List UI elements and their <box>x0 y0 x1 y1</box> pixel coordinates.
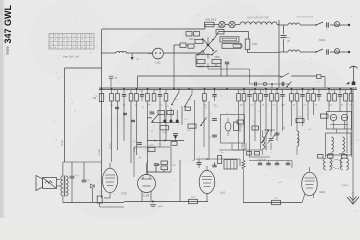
label m2b <box>278 182 282 184</box>
wire bottom bus right <box>243 202 302 204</box>
wire transformer bottom <box>63 196 124 203</box>
caps row labels <box>257 159 267 161</box>
rectifier GW2 blocks <box>186 32 200 42</box>
resistor R-r1 <box>237 120 244 132</box>
coil L-dial <box>116 51 126 53</box>
trimmer blobs <box>163 108 178 123</box>
value labels row <box>110 105 353 107</box>
terminal upper <box>345 24 350 26</box>
wire left spine <box>101 29 103 198</box>
wire upper bus drop <box>137 76 139 87</box>
wire if links <box>326 129 348 158</box>
resistor R-bb <box>189 197 198 204</box>
resistor R-m2 <box>167 111 174 115</box>
resistor R-spine <box>92 94 103 102</box>
switch S-d <box>200 118 206 127</box>
svg-text:600Ω: 600Ω <box>319 38 325 42</box>
resistor R-t3 <box>218 152 225 164</box>
svg-text:1,5 kΩ: 1,5 kΩ <box>241 142 244 149</box>
resistor R-r4 <box>321 114 329 118</box>
resistor R-d2 <box>187 124 196 132</box>
wire lamp line <box>205 25 240 30</box>
wire cl-left <box>174 45 188 53</box>
wire m-h122 <box>151 122 180 124</box>
wire caps bus <box>249 161 292 164</box>
wire output spine <box>278 20 280 87</box>
wire m-h140 <box>147 140 184 142</box>
resistor R-if1 <box>318 155 324 159</box>
resistor R-d3 <box>234 122 245 131</box>
wire d links <box>219 143 246 150</box>
tube K72 pin <box>104 193 110 198</box>
resistor R-r2 <box>252 126 259 130</box>
resistor R-br <box>272 198 281 205</box>
wire y162 <box>63 161 102 163</box>
capacitor C-sp1 <box>70 162 80 203</box>
wire speaker top <box>57 180 61 187</box>
wire upper terminal line <box>279 24 316 26</box>
switch S3 <box>171 88 192 107</box>
resistor R-ub <box>317 75 322 83</box>
wire cl-h67 <box>196 55 221 67</box>
coil upper output <box>288 23 300 25</box>
wire trimmer bus <box>264 129 275 150</box>
barretter coil <box>240 17 277 25</box>
svg-text:Saba: Saba <box>6 45 10 55</box>
capacitor C-6F <box>109 76 118 87</box>
capacitor upper output <box>327 22 345 27</box>
wire top frame <box>102 28 205 30</box>
resistor R-cl1 <box>195 40 203 44</box>
IF coil a <box>332 137 334 152</box>
capacitor C-t2 <box>133 140 142 144</box>
svg-text:347 GWL: 347 GWL <box>3 4 13 43</box>
capacitor C-avc1 <box>255 82 257 86</box>
table caption <box>63 55 79 59</box>
resistor R-m1 <box>158 111 165 115</box>
AF transformer coils <box>324 159 349 170</box>
wire v194 <box>194 100 196 160</box>
resistor R-if2 <box>328 155 334 159</box>
resistor R-wm <box>242 150 245 203</box>
resistor R-4k <box>245 39 257 50</box>
label U des rotated <box>98 148 101 155</box>
label u2 rotated <box>133 147 136 152</box>
svg-text:λ.ε2: λ.ε2 <box>220 191 225 195</box>
cap ticks verticals <box>115 107 135 121</box>
wire cl-v1 <box>247 50 249 53</box>
switch S2b <box>211 51 217 56</box>
label module <box>139 157 142 159</box>
capacitor C-m2 <box>173 134 178 141</box>
lamp LA2 <box>148 48 163 59</box>
tube voltage table <box>49 34 94 50</box>
caps row above <box>258 163 290 165</box>
resistor R-line <box>205 18 217 27</box>
label 0,1 rotated <box>298 137 301 142</box>
capacitor C-t3a <box>192 159 201 168</box>
wire m-h118 <box>147 117 152 119</box>
electrolytic C-e <box>225 118 231 136</box>
switch S4 <box>149 111 158 122</box>
capacitor C-bb <box>150 201 164 209</box>
wire cl-h54 <box>196 54 212 56</box>
wire antenna branch <box>65 68 102 162</box>
switch lower output <box>315 49 323 53</box>
wire to output block <box>277 24 279 26</box>
capacitor C-d1 <box>210 119 217 122</box>
trimmer C-tr <box>268 135 276 144</box>
label 4k rotated <box>110 143 113 148</box>
resistor R-k <box>97 196 124 207</box>
wire corner y69 <box>208 69 249 84</box>
tube C83 <box>138 163 156 193</box>
wire v292 <box>291 161 293 169</box>
switch S5 <box>261 130 269 143</box>
capacitor C-sp2 <box>82 162 91 182</box>
wire hub to line <box>196 31 219 53</box>
capacitor C-cl <box>225 62 229 76</box>
tube L-E2 <box>199 166 215 202</box>
wire lower terminal line <box>279 51 316 53</box>
switch upper bus <box>280 73 289 78</box>
wire r links <box>233 150 270 157</box>
svg-text:(F550): (F550) <box>342 185 349 187</box>
label V lim <box>95 96 97 98</box>
label L-E2 <box>220 191 225 195</box>
resistor R-if3 <box>342 155 348 159</box>
resistor R-150b <box>212 57 221 64</box>
IF coil b <box>343 137 345 152</box>
wire AF line y52.7 <box>248 52 280 54</box>
lamp LA3 <box>229 21 235 27</box>
coil L-r2 <box>263 130 265 155</box>
wire v180 <box>179 160 181 202</box>
coil lower output <box>288 50 300 52</box>
label CK1 <box>319 190 325 194</box>
tube CK1 pins <box>302 194 314 203</box>
svg-text:4,4 V 4,4 V 7,8 V: 4,4 V 4,4 V 7,8 V <box>297 17 314 19</box>
wire t2 links <box>147 161 171 173</box>
wire main bus <box>99 88 357 90</box>
vertical wires right <box>239 90 352 158</box>
capacitor C-m1 <box>150 112 155 114</box>
dotted circle coupling <box>332 159 341 168</box>
title Saba 347 GWL <box>3 4 13 55</box>
filter can K1 <box>220 37 239 42</box>
wire right edge <box>352 89 354 193</box>
switch hub S1 <box>202 37 214 52</box>
pot wiper <box>263 82 273 88</box>
IF can lower <box>326 133 352 155</box>
wire dial line <box>102 52 197 54</box>
resistor R-150a <box>197 60 205 69</box>
resistor R-d1 <box>185 107 191 110</box>
tube C83 pins <box>142 192 151 202</box>
antenna symbol <box>346 66 358 85</box>
resistor R-r5 <box>247 152 260 156</box>
resistor R-cl2 <box>180 43 194 48</box>
lamp LA1 <box>219 21 225 27</box>
capacitor lower output <box>327 49 345 54</box>
tube CK1 <box>302 167 318 196</box>
capacitor C-d2 <box>209 135 217 139</box>
coil L-t3 <box>224 160 237 170</box>
lamp jack lower <box>334 49 339 54</box>
wire upper bus <box>138 76 326 87</box>
resistor R-m4 <box>160 126 169 135</box>
wire v204 <box>203 100 205 147</box>
capacitor C-r1 <box>275 133 280 135</box>
IF trim caps <box>328 153 345 155</box>
rectifier GW1 <box>216 26 224 34</box>
wire v209 <box>208 101 210 160</box>
label U ant <box>60 140 64 146</box>
label 600 <box>319 38 325 42</box>
wire bottom bus <box>124 201 208 203</box>
label K72 <box>122 192 127 196</box>
vertical wires left <box>112 53 183 175</box>
coil L-r1 <box>297 131 299 155</box>
terminal lower <box>345 51 350 53</box>
wire cl-drops <box>208 53 221 76</box>
switch S-avc <box>286 82 291 88</box>
switch upper output <box>315 22 323 26</box>
label 30k rotated <box>283 126 286 129</box>
svg-text:1796: 1796 <box>191 197 197 199</box>
label 1,5k rotated <box>241 142 244 149</box>
label earth <box>342 185 349 187</box>
speaker <box>36 176 57 191</box>
resistor R-r3 <box>296 116 304 123</box>
grid components t2 <box>154 161 177 170</box>
capacitor C-el <box>131 53 140 61</box>
label 4k2 rotated <box>265 145 268 150</box>
tiny value annotations <box>117 17 314 134</box>
component row below bus <box>110 90 353 102</box>
svg-text:CA3: CA3 <box>319 190 325 194</box>
capacitor C-avc2 <box>282 82 284 86</box>
wire AVC line y84 <box>249 83 290 85</box>
filter can K2 <box>222 44 242 49</box>
label C83 <box>143 194 150 198</box>
lamp jack upper <box>334 22 339 27</box>
capacitor C-output <box>281 25 291 52</box>
tube K72 <box>102 163 117 193</box>
IF can upper <box>327 112 352 130</box>
earth symbol <box>347 192 359 204</box>
transformer core <box>63 176 66 197</box>
capacitor C-t3b <box>212 162 216 167</box>
box AF module <box>221 115 245 144</box>
wire t3 top <box>196 158 240 166</box>
label LA2 <box>156 61 161 65</box>
resistor R-t2 <box>148 145 155 152</box>
box feedback loop <box>134 147 171 177</box>
component designators <box>114 90 345 92</box>
resistor R-m5 <box>171 142 177 146</box>
output transformer <box>61 162 68 196</box>
wire bus 31.5 <box>219 32 249 40</box>
svg-text:U ant: U ant <box>60 140 64 146</box>
switch S2a <box>197 51 203 56</box>
junction dots main bus <box>101 88 352 90</box>
diode D-sp <box>91 184 95 203</box>
